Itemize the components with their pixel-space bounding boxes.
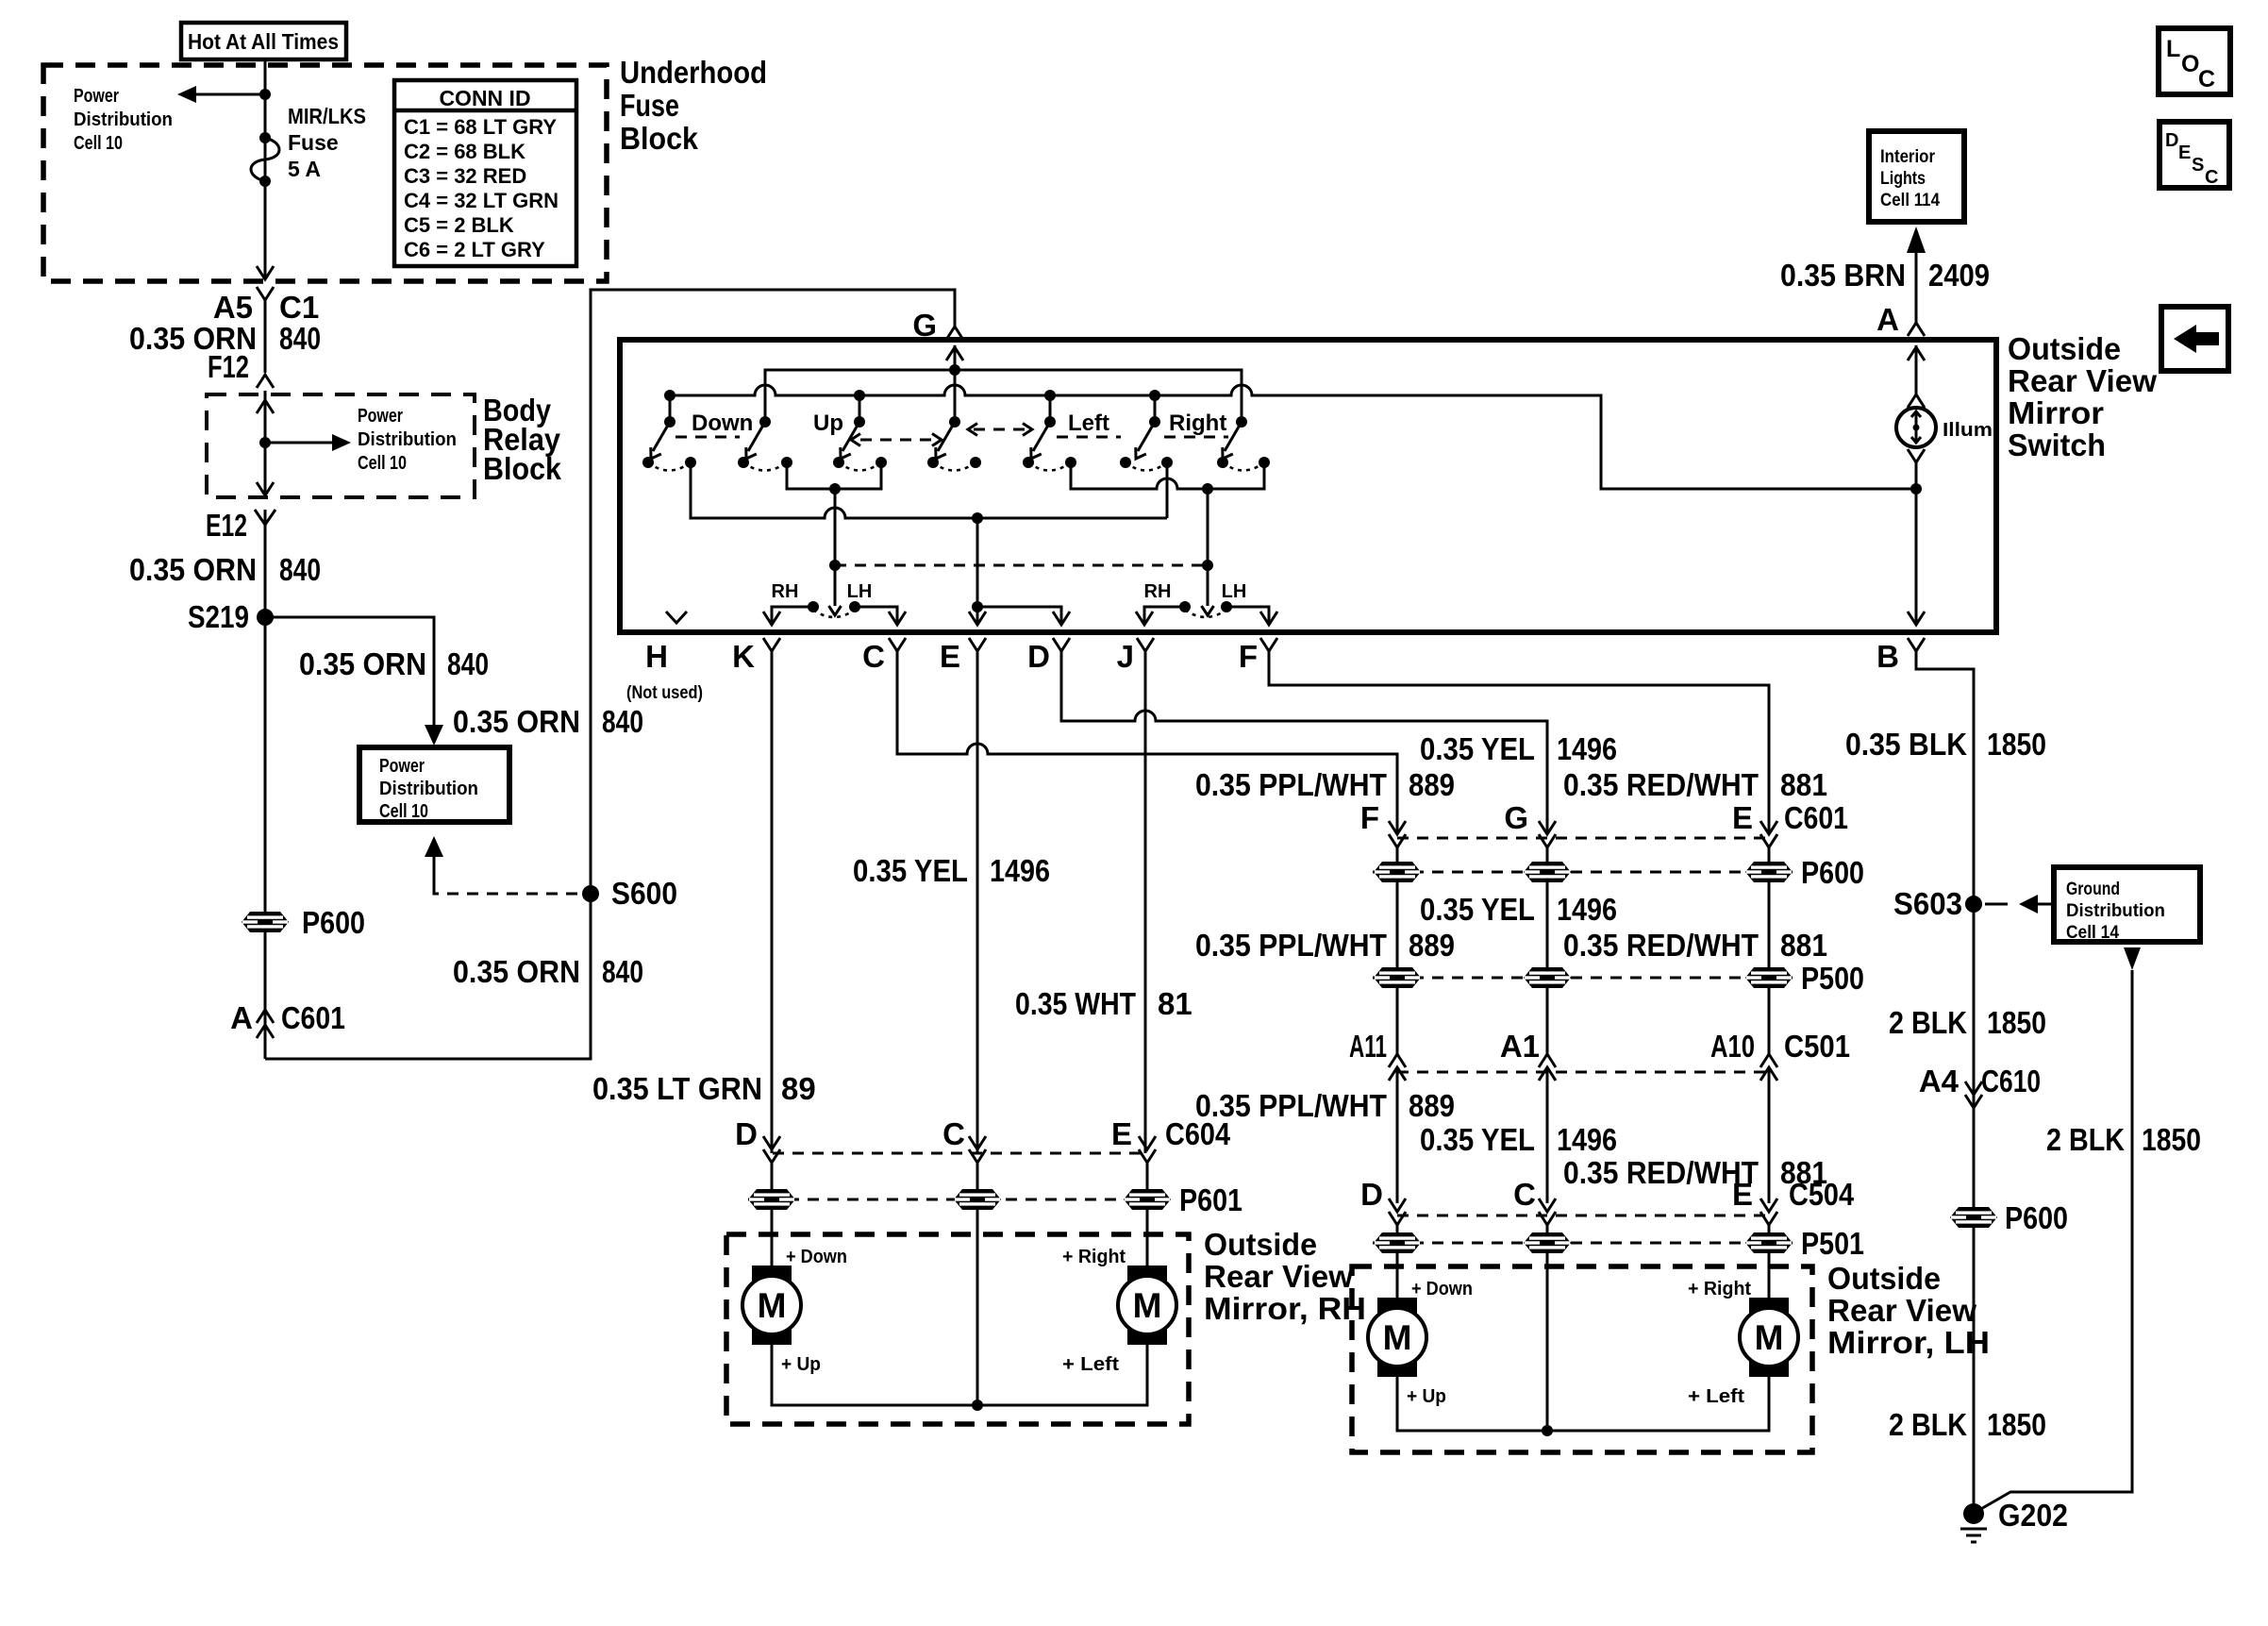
svg-text:P600: P600 — [302, 905, 365, 940]
svg-text:J: J — [1117, 639, 1134, 674]
svg-text:881: 881 — [1780, 767, 1827, 802]
label 0.35 ORN 840 right of arrow — [453, 704, 643, 739]
svg-text:(Not used): (Not used) — [626, 683, 703, 703]
dashed wire to S600 — [434, 887, 591, 894]
pin C — [862, 638, 1397, 834]
wire stub mid1 contact — [859, 395, 861, 422]
Body Relay Block label — [483, 393, 562, 486]
Hot At All Times box — [181, 23, 346, 59]
label 0.35 PPL/WHT 889 (2nd) — [1195, 928, 1455, 963]
svg-text:C: C — [862, 639, 885, 674]
svg-text:1496: 1496 — [1557, 892, 1617, 927]
label 0.35 WHT 81 (J pin wire) — [1015, 986, 1192, 1021]
wire into RH left/right motor — [1146, 1210, 1149, 1267]
wire G column P500-C501 — [1546, 988, 1549, 1054]
svg-text:+ Up: + Up — [1407, 1386, 1446, 1407]
svg-text:0.35 ORN: 0.35 ORN — [299, 646, 426, 681]
svg-text:C: C — [942, 1116, 965, 1151]
svg-text:Cell 10: Cell 10 — [358, 453, 407, 474]
svg-text:Power: Power — [74, 86, 119, 107]
svg-text:D: D — [1360, 1177, 1383, 1212]
svg-text:LH: LH — [1222, 581, 1247, 602]
svg-text:G: G — [1504, 800, 1528, 835]
svg-text:+ Right: + Right — [1688, 1279, 1751, 1299]
svg-text:881: 881 — [1780, 928, 1827, 963]
label 2 BLK 1850 (lower) — [1889, 1407, 2046, 1442]
svg-text:+ Down: + Down — [786, 1247, 847, 1267]
P600 lens G — [1524, 862, 1571, 882]
switch pole G-column — [927, 416, 981, 471]
C501 dashed connector line — [1397, 1071, 1769, 1074]
svg-text:O: O — [2181, 51, 2199, 77]
svg-text:Mirror, LH: Mirror, LH — [1827, 1325, 1990, 1360]
svg-text:0.35 RED/WHT: 0.35 RED/WHT — [1563, 928, 1759, 963]
svg-text:889: 889 — [1409, 928, 1455, 963]
svg-text:Underhood: Underhood — [620, 55, 767, 90]
svg-text:Outside: Outside — [2008, 331, 2121, 366]
label 0.35 YEL 1496 (2nd) — [1420, 892, 1617, 927]
svg-text:840: 840 — [279, 552, 321, 587]
C604 crossing E — [1139, 1136, 1156, 1189]
svg-text:0.35 ORN: 0.35 ORN — [453, 954, 580, 989]
Power Distribution Cell 10 text (relay block) — [358, 406, 457, 474]
C501 row pin labels — [1349, 1029, 1850, 1064]
C504 crossing C — [1539, 1199, 1556, 1232]
svg-text:B: B — [1876, 639, 1899, 674]
branch wire label 0.35 ORN 840 — [299, 646, 489, 681]
pin D — [1027, 638, 1547, 834]
RH up/down motor — [742, 1266, 801, 1345]
selector 2 RH/LH — [1136, 581, 1277, 625]
connector A5/C1 fork — [257, 287, 274, 300]
svg-text:S600: S600 — [611, 876, 677, 911]
svg-text:S219: S219 — [188, 599, 249, 634]
label 2 BLK 1850 (right wire) — [2046, 1122, 2201, 1157]
switch Right — [1217, 416, 1270, 471]
pin B — [1876, 638, 1974, 1510]
C501 crossing A1 — [1539, 1054, 1556, 1203]
selector 1 RH/LH — [763, 581, 906, 625]
wire from Hot At All Times down — [264, 59, 267, 277]
svg-text:840: 840 — [447, 646, 489, 681]
svg-text:+ Up: + Up — [781, 1354, 821, 1375]
svg-text:0.35 ORN: 0.35 ORN — [453, 704, 580, 739]
svg-text:840: 840 — [279, 321, 321, 356]
svg-text:E12: E12 — [206, 508, 247, 543]
connector E12 fork — [255, 510, 275, 525]
fuse MIR/LKS 5A — [251, 132, 279, 187]
label 0.35 PPL/WHT 889 (3rd) — [1195, 1088, 1455, 1123]
wire stub Down contact — [669, 395, 672, 422]
svg-text:2 BLK: 2 BLK — [1889, 1407, 1967, 1442]
svg-text:Outside: Outside — [1204, 1227, 1317, 1262]
svg-text:Interior: Interior — [1880, 147, 1936, 167]
selector linkage dashed — [835, 564, 1208, 567]
svg-text:0.35 YEL: 0.35 YEL — [1420, 892, 1535, 927]
svg-text:C601: C601 — [281, 1000, 345, 1035]
svg-text:1850: 1850 — [2142, 1122, 2201, 1157]
svg-text:E: E — [1111, 1116, 1132, 1151]
inner feed line (G rail) — [765, 370, 1242, 422]
Outside Rear View Mirror RH dashed box — [726, 1234, 1189, 1424]
wire label 0.35 ORN 840 — [129, 321, 321, 356]
linkage Left-mid2 — [1057, 436, 1121, 439]
svg-text:0.35 RED/WHT: 0.35 RED/WHT — [1563, 1155, 1759, 1190]
svg-text:Power: Power — [379, 756, 425, 777]
connector A4/C610 — [1919, 1064, 2041, 1108]
C504 dashed connector line — [1397, 1215, 1769, 1217]
arrow down at relay block bottom — [257, 482, 274, 495]
svg-text:2 BLK: 2 BLK — [1889, 1005, 1967, 1040]
svg-text:2 BLK: 2 BLK — [2046, 1122, 2125, 1157]
switch pole mid2 — [1120, 411, 1226, 471]
svg-text:E: E — [2178, 142, 2191, 163]
wire into LH left/right motor — [1768, 1253, 1771, 1299]
svg-text:89: 89 — [781, 1071, 816, 1106]
svg-text:0.35 YEL: 0.35 YEL — [853, 853, 968, 888]
svg-text:A1: A1 — [1500, 1029, 1540, 1064]
svg-text:A11: A11 — [1349, 1029, 1387, 1064]
svg-text:Up: Up — [813, 411, 843, 436]
svg-text:+ Left: + Left — [1688, 1386, 1744, 1407]
E column inside box — [969, 518, 986, 625]
pin G connector fork — [946, 327, 963, 340]
left arrow box — [2161, 307, 2228, 371]
svg-text:840: 840 — [602, 954, 643, 989]
node mid2 rail — [1149, 390, 1160, 401]
svg-text:D: D — [735, 1116, 758, 1151]
svg-text:D: D — [1027, 639, 1050, 674]
svg-text:C610: C610 — [1981, 1064, 2041, 1098]
LH up/down motor — [1368, 1298, 1426, 1377]
C601 dashed connector line — [1397, 837, 1769, 840]
svg-text:1850: 1850 — [1987, 1005, 2046, 1040]
Outside Rear View Mirror LH label — [1827, 1261, 1990, 1360]
svg-text:C1 = 68 LT GRY: C1 = 68 LT GRY — [404, 115, 557, 139]
svg-text:Cell 14: Cell 14 — [2066, 923, 2119, 943]
Illum lamp branch — [1896, 345, 1993, 625]
svg-text:H: H — [645, 639, 668, 674]
svg-text:Mirror, RH: Mirror, RH — [1204, 1291, 1366, 1326]
svg-text:C604: C604 — [1165, 1116, 1231, 1151]
svg-text:C4 = 32 LT GRN: C4 = 32 LT GRN — [404, 189, 559, 212]
svg-text:Block: Block — [620, 121, 699, 156]
Underhood Fuse Block label — [620, 55, 767, 156]
svg-text:2409: 2409 — [1928, 258, 1990, 293]
RH left/right motor — [1118, 1266, 1176, 1345]
svg-text:S: S — [2192, 155, 2204, 176]
svg-text:0.35 WHT: 0.35 WHT — [1015, 986, 1136, 1021]
svg-text:RH: RH — [772, 581, 799, 602]
svg-text:A10: A10 — [1710, 1029, 1755, 1064]
collector line B (Down/E/mid2) — [691, 462, 1167, 524]
P600 lens F — [1374, 862, 1421, 882]
svg-text:E: E — [1732, 800, 1753, 835]
C604 crossing C — [969, 1136, 986, 1189]
switch box outline — [620, 340, 1996, 632]
svg-text:1496: 1496 — [1557, 731, 1617, 766]
svg-text:Ground: Ground — [2066, 880, 2120, 899]
node Down rail — [664, 390, 675, 401]
P601 lens C — [954, 1189, 1001, 1210]
dashed arrow from ground distribution — [1985, 895, 2054, 914]
svg-text:Rear View: Rear View — [1204, 1259, 1353, 1294]
junction node at fuse feed — [259, 89, 271, 100]
P501 dashed row — [1373, 1242, 1793, 1245]
svg-text:D: D — [2165, 130, 2178, 151]
linkage mid2-Right — [1164, 436, 1228, 439]
svg-text:0.35 YEL: 0.35 YEL — [1420, 731, 1535, 766]
collector line A (Up/mid1 to selector1) — [787, 462, 881, 615]
label 0.35 YEL 1496 (top) — [1420, 731, 1617, 766]
svg-text:+ Right: + Right — [1062, 1247, 1126, 1267]
fuse label — [288, 104, 366, 181]
svg-text:Fuse: Fuse — [620, 88, 679, 123]
wire to switch feed loop — [265, 290, 955, 1059]
LOC box — [2159, 28, 2230, 94]
node Left rail — [1044, 390, 1056, 401]
P501 lens C — [1524, 1232, 1571, 1253]
bridge E to D pin — [977, 607, 1070, 625]
svg-text:F: F — [1360, 800, 1379, 835]
wire E column P500-C501 — [1768, 988, 1771, 1054]
P601 lens D — [748, 1189, 795, 1210]
C604 crossing D — [763, 1136, 780, 1189]
svg-text:S603: S603 — [1893, 886, 1962, 921]
svg-text:1496: 1496 — [990, 853, 1050, 888]
svg-text:Mirror: Mirror — [2008, 395, 2104, 430]
svg-text:889: 889 — [1409, 767, 1455, 802]
ground G202 — [1960, 1498, 2068, 1542]
label 0.35 RED/WHT 881 (top) — [1563, 767, 1827, 802]
svg-text:P500: P500 — [1801, 961, 1864, 996]
svg-text:5 A: 5 A — [288, 157, 321, 181]
svg-text:Distribution: Distribution — [358, 429, 457, 450]
P600 dashed row — [1373, 871, 1793, 874]
svg-text:0.35 YEL: 0.35 YEL — [1420, 1122, 1535, 1157]
Ground Distribution Cell 14 box — [2054, 867, 2200, 943]
C601 crossing E — [1760, 821, 1777, 862]
label 0.35 RED/WHT 881 (2nd) — [1563, 928, 1827, 963]
CONN ID table — [394, 80, 576, 266]
svg-text:E: E — [940, 639, 960, 674]
svg-text:P600: P600 — [2005, 1200, 2068, 1235]
label 2 BLK 1850 (upper) — [1889, 1005, 2046, 1040]
arrow right to Power Distribution — [265, 434, 351, 451]
svg-text:A: A — [230, 1000, 253, 1035]
svg-text:0.35 RED/WHT: 0.35 RED/WHT — [1563, 767, 1759, 802]
C601 crossing G — [1539, 821, 1556, 862]
svg-text:Cell 10: Cell 10 — [74, 133, 123, 154]
svg-text:C3 = 32 RED: C3 = 32 RED — [404, 164, 526, 188]
svg-text:A: A — [1876, 302, 1899, 337]
node on G feed line — [949, 364, 960, 376]
pin J — [1117, 638, 1154, 1153]
label 0.35 YEL 1496 (3rd) — [1420, 1122, 1617, 1157]
RH motor common wire — [772, 1210, 1147, 1411]
connector F12 fork — [257, 375, 274, 388]
svg-text:P601: P601 — [1179, 1182, 1242, 1217]
inline connector P600 (left) — [242, 912, 289, 932]
svg-text:F: F — [1239, 639, 1258, 674]
P501 lens E — [1745, 1232, 1793, 1253]
label 0.35 YEL 1496 (E pin wire) — [853, 853, 1050, 888]
arrow up into Power Distribution box — [425, 836, 443, 887]
svg-text:F12: F12 — [208, 349, 249, 384]
wire through relay block — [264, 391, 267, 497]
svg-text:C: C — [1513, 1177, 1536, 1212]
C504 crossing D — [1389, 1199, 1406, 1232]
svg-text:L: L — [2166, 36, 2180, 62]
P600 lens E — [1745, 862, 1793, 882]
svg-text:Distribution: Distribution — [2066, 901, 2165, 921]
svg-text:Switch: Switch — [2008, 427, 2106, 462]
svg-text:Illum: Illum — [1943, 420, 1993, 441]
svg-text:0.35 PPL/WHT: 0.35 PPL/WHT — [1195, 767, 1387, 802]
pin H (not used) — [626, 612, 703, 703]
wire G column P600-P500 — [1546, 882, 1549, 967]
svg-text:889: 889 — [1409, 1088, 1455, 1123]
splice S603 — [1965, 896, 1982, 913]
svg-text:C: C — [2198, 66, 2215, 92]
P500 dashed row — [1373, 977, 1793, 980]
P500 lens G — [1524, 967, 1571, 988]
svg-text:Right: Right — [1169, 411, 1226, 436]
arrow to Power Distribution — [177, 86, 265, 103]
wire stub mid2 contact — [1154, 395, 1157, 422]
svg-text:Hot At All Times: Hot At All Times — [188, 29, 339, 54]
C604 row pin labels — [735, 1116, 1230, 1151]
svg-text:0.35 ORN: 0.35 ORN — [129, 552, 257, 587]
Outside Rear View Mirror Switch label — [2008, 331, 2157, 462]
svg-text:P501: P501 — [1801, 1226, 1864, 1261]
svg-text:C504: C504 — [1789, 1177, 1855, 1212]
DESC box — [2160, 122, 2229, 188]
splice S219 — [257, 609, 274, 626]
svg-text:+ Left: + Left — [1062, 1354, 1119, 1375]
pin F — [1239, 638, 1769, 834]
LH motor common wire — [1397, 1253, 1769, 1436]
label 0.35 BLK 1850 — [1845, 727, 2046, 762]
svg-text:P600: P600 — [1801, 855, 1864, 890]
P601 dashed row — [748, 1199, 1170, 1201]
svg-text:C: C — [2205, 167, 2218, 188]
splice S600 — [582, 885, 599, 902]
wire E column P600-P500 — [1768, 882, 1771, 967]
svg-text:G202: G202 — [1998, 1498, 2068, 1533]
C601 crossing F — [1389, 821, 1406, 862]
C501 crossing A11 — [1389, 1054, 1406, 1203]
svg-text:Power: Power — [358, 406, 403, 427]
top contact rail (B rail) with humps — [670, 385, 1916, 489]
svg-text:+ Down: + Down — [1411, 1279, 1473, 1299]
wire label 0.35 ORN 840 — [129, 552, 321, 587]
svg-text:Cell 10: Cell 10 — [379, 801, 428, 822]
svg-text:Distribution: Distribution — [74, 109, 173, 130]
Underhood Fuse Block dashed box — [43, 65, 607, 281]
wire F column P600-P500 — [1396, 882, 1399, 967]
svg-text:A4: A4 — [1919, 1064, 1959, 1098]
svg-text:81: 81 — [1158, 986, 1192, 1021]
P500 lens E — [1745, 967, 1793, 988]
svg-text:Fuse: Fuse — [288, 130, 339, 155]
switch Up — [738, 411, 843, 471]
C604 dashed connector line — [773, 1152, 1147, 1155]
wire label 0.35 BRN 2409 — [1780, 258, 1990, 293]
arrow up inside box at G — [946, 347, 963, 360]
svg-text:MIR/LKS: MIR/LKS — [288, 104, 366, 128]
svg-text:LH: LH — [847, 581, 873, 602]
collector line right (Left/Right to selector2) — [1071, 462, 1264, 615]
svg-text:0.35 LT GRN: 0.35 LT GRN — [592, 1071, 762, 1106]
label 0.35 LT GRN 89 (K pin wire) — [592, 1071, 816, 1106]
svg-text:1850: 1850 — [1987, 1407, 2046, 1442]
wire down to S219 — [264, 510, 267, 1059]
P600 lens on ground wire — [1950, 1207, 1997, 1228]
G wire into box — [954, 345, 957, 422]
C504 crossing E — [1760, 1199, 1777, 1232]
arrow up inside relay block — [257, 400, 274, 413]
pin K — [732, 638, 780, 1153]
P500 lens F — [1374, 967, 1421, 988]
linkage Down-Up — [675, 436, 740, 439]
Body Relay Block dashed box — [207, 394, 475, 497]
svg-text:C5 = 2 BLK: C5 = 2 BLK — [404, 213, 514, 237]
C501 crossing A10 — [1760, 1054, 1777, 1203]
P501 lens D — [1374, 1232, 1421, 1253]
branch wire to Power Distribution cell box — [265, 617, 443, 746]
svg-text:Rear View: Rear View — [2008, 363, 2157, 398]
label 0.35 ORN 840 lower — [453, 954, 643, 989]
linkage Up-G with arrows — [851, 434, 942, 446]
pin E — [940, 638, 986, 1153]
connector A / C601 double chevron — [257, 1010, 274, 1023]
Power Distribution Cell 10 text (fuse block) — [74, 86, 173, 154]
C601 row pin labels — [1360, 800, 1848, 835]
pin A and Interior Lights — [1869, 131, 1964, 337]
svg-text:840: 840 — [602, 704, 643, 739]
svg-text:Block: Block — [483, 451, 562, 486]
svg-text:Distribution: Distribution — [379, 779, 478, 799]
svg-text:A5: A5 — [213, 290, 253, 325]
svg-text:Rear View: Rear View — [1827, 1293, 1976, 1328]
svg-text:C6 = 2 LT GRY: C6 = 2 LT GRY — [404, 238, 545, 261]
svg-text:E: E — [1732, 1177, 1753, 1212]
svg-text:K: K — [732, 639, 755, 674]
svg-text:Cell 114: Cell 114 — [1880, 191, 1940, 210]
Outside Rear View Mirror RH label — [1204, 1227, 1366, 1326]
svg-text:C601: C601 — [1784, 800, 1848, 835]
C504 row pin labels — [1360, 1177, 1854, 1212]
switch pole mid1 — [833, 416, 887, 471]
svg-text:C501: C501 — [1784, 1029, 1850, 1064]
label 0.35 RED/WHT 881 (3rd) — [1563, 1155, 1827, 1190]
switch Left — [1023, 411, 1109, 471]
svg-text:0.35 BRN: 0.35 BRN — [1780, 258, 1906, 293]
ground distribution drop wire — [1979, 947, 2141, 1510]
node mid1 rail — [854, 390, 865, 401]
arrow into fuse block bottom edge — [257, 266, 274, 279]
wire into RH down motor — [771, 1210, 774, 1267]
svg-text:0.35 PPL/WHT: 0.35 PPL/WHT — [1195, 928, 1387, 963]
svg-text:Down: Down — [692, 411, 753, 436]
wire F column P500-C501 — [1396, 988, 1399, 1054]
svg-text:CONN ID: CONN ID — [439, 86, 530, 110]
linkage G-Left with arrows — [968, 424, 1032, 436]
Power Distribution Cell 10 box — [359, 747, 509, 822]
wire into LH down motor — [1396, 1253, 1399, 1299]
Outside Rear View Mirror LH dashed box — [1352, 1266, 1812, 1452]
